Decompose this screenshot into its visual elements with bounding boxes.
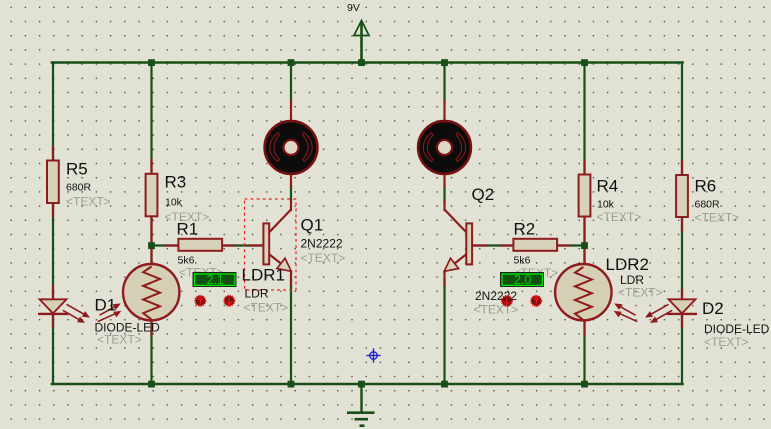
LDR2 value display 2.0 [501, 273, 544, 288]
svg-text:<TEXT>: <TEXT> [474, 303, 519, 317]
Q2 collector pin [443, 201, 445, 210]
junction R3 top rail [148, 59, 155, 66]
svg-text:LDR1: LDR1 [242, 266, 285, 285]
svg-text:<TEXT>: <TEXT> [97, 333, 142, 347]
svg-text:680R: 680R [695, 199, 721, 211]
motor 2 [418, 121, 471, 174]
resistor R5 [47, 161, 59, 204]
wire motor2 top segment [443, 63, 445, 102]
svg-text:680R: 680R [66, 182, 92, 194]
svg-text:R1: R1 [177, 220, 199, 239]
svg-text:10k: 10k [597, 199, 615, 211]
svg-text:2N2222: 2N2222 [301, 237, 343, 251]
svg-text:DIODE-LED: DIODE-LED [704, 322, 770, 336]
junction Q1 emitter bottom rail [288, 381, 295, 388]
motor1 pins [290, 101, 292, 121]
LED D2 [645, 299, 697, 323]
motor 1 [265, 121, 318, 174]
LDR1 pins [150, 250, 152, 264]
junction 9V top rail [358, 59, 365, 66]
LDR2 [555, 264, 637, 322]
svg-text:<TEXT>: <TEXT> [244, 301, 289, 315]
junction ground bottom rail [358, 381, 365, 388]
svg-text:R3: R3 [165, 173, 187, 192]
wire motor1 to Q1 collector [290, 186, 292, 202]
junction motor1 top rail [288, 59, 295, 66]
R3 pins [150, 160, 152, 174]
svg-text:<TEXT>: <TEXT> [597, 210, 642, 224]
svg-text:LDR2: LDR2 [606, 255, 649, 274]
wire bottom ground rail [52, 383, 683, 386]
svg-text:<TEXT>: <TEXT> [301, 251, 346, 265]
motor2 pins [443, 101, 445, 121]
Q1 emitter pin [290, 272, 292, 286]
Q2 emitter pin [443, 272, 445, 286]
transistor Q2 [444, 210, 472, 272]
R1 pins [165, 244, 178, 246]
junction LDR1 bottom rail [148, 381, 155, 388]
svg-text:2.0: 2.0 [514, 273, 531, 287]
svg-text:LDR: LDR [245, 287, 269, 301]
R2 pins [501, 244, 513, 246]
R6 pins [681, 161, 683, 175]
D1 pins [52, 286, 54, 300]
wire left branch vertical [52, 63, 54, 385]
resistor R1 [178, 239, 222, 251]
svg-text:R4: R4 [597, 177, 619, 196]
D2 pins [681, 290, 683, 300]
origin marker [366, 348, 380, 362]
junction R3/R1 node [148, 242, 155, 249]
junction Q2 emitter bottom rail [441, 381, 448, 388]
junction R4 top rail [581, 59, 588, 66]
Q1 collector pin [290, 201, 292, 210]
red pin overlays [53, 101, 682, 335]
Q1 base pin [250, 244, 263, 246]
svg-text:R6: R6 [695, 177, 717, 196]
svg-text:<TEXT>: <TEXT> [66, 195, 111, 209]
resistor R3 [146, 174, 158, 217]
wire R3/LDR1 branch vertical [150, 63, 152, 385]
wire Q2 emitter to bottom rail [443, 280, 445, 384]
wire R4/LDR2 branch vertical [583, 63, 585, 385]
Q2 base pin [473, 244, 486, 246]
LDR2 down button [502, 296, 512, 306]
junction motor2 top rail [441, 59, 448, 66]
LDR1 value display 2.1 [193, 273, 236, 288]
svg-text:9V: 9V [347, 2, 360, 14]
wire base row left [152, 244, 264, 246]
LDR2 pins [583, 250, 585, 264]
junction LDR2 bottom rail [581, 381, 588, 388]
LDR2 up button [531, 296, 541, 306]
svg-text:<TEXT>: <TEXT> [618, 286, 663, 300]
LDR1 [98, 264, 180, 322]
transistor Q1 [263, 210, 291, 272]
svg-text:10k: 10k [165, 197, 183, 209]
R4 pins [583, 161, 585, 175]
power symbol 9V [354, 21, 369, 63]
svg-text:<TEXT>: <TEXT> [704, 335, 749, 349]
wire motor1 top segment [290, 63, 292, 102]
wire motor2 to Q2 collector [443, 186, 445, 202]
svg-text:2.1: 2.1 [207, 273, 224, 287]
resistor R6 [676, 175, 688, 217]
wire right branch vertical [681, 63, 683, 385]
R5 pins [52, 147, 54, 161]
svg-text:5k6: 5k6 [514, 255, 531, 267]
ground symbol [347, 384, 375, 426]
junction R4/R2 node [581, 242, 588, 249]
svg-text:R5: R5 [66, 160, 88, 179]
wire Q1 emitter to bottom rail [290, 280, 292, 384]
wire base row right [473, 244, 585, 246]
LDR1 up button [195, 296, 205, 306]
selection dashed box around Q1 [245, 199, 297, 290]
resistor R2 [513, 239, 557, 251]
wire top power rail [52, 61, 683, 64]
svg-text:R2: R2 [514, 220, 536, 239]
svg-text:D1: D1 [95, 296, 117, 315]
svg-text:<TEXT>: <TEXT> [695, 211, 740, 225]
svg-text:Q2: Q2 [472, 185, 495, 204]
LDR1 down button [224, 296, 234, 306]
LED D1 [38, 299, 90, 323]
svg-text:D2: D2 [702, 299, 724, 318]
svg-text:Q1: Q1 [301, 216, 324, 235]
resistor R4 [579, 175, 591, 217]
